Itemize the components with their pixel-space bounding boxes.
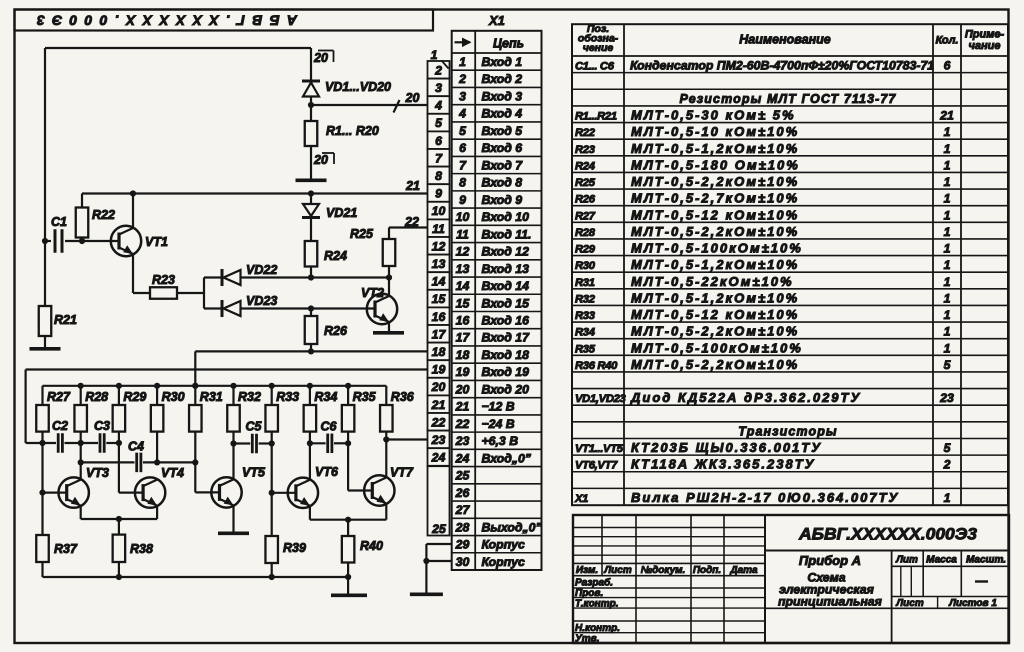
label VT6 <box>315 465 339 479</box>
svg-text:МЛТ-0,5-1,2кОм±10%: МЛТ-0,5-1,2кОм±10% <box>631 141 799 156</box>
connector X1 header arrow <box>455 38 472 48</box>
resistor R26 <box>305 309 318 352</box>
svg-text:1: 1 <box>944 158 951 172</box>
svg-text:С1... С6: С1... С6 <box>575 61 615 73</box>
wire C2-C3 segment <box>65 442 99 444</box>
diode VD1...VD20 <box>302 81 320 97</box>
node R26 bottom on bus18 <box>308 348 314 354</box>
label R33 <box>276 390 299 404</box>
svg-text:Вход 8: Вход 8 <box>482 176 523 190</box>
label C2 <box>52 419 68 433</box>
svg-text:VT1...VT5: VT1...VT5 <box>575 443 624 455</box>
resistor R33 <box>265 386 278 432</box>
resistor R37 <box>36 535 49 577</box>
svg-text:6: 6 <box>435 134 442 148</box>
svg-text:VT1: VT1 <box>145 235 168 249</box>
svg-text:9: 9 <box>459 193 466 207</box>
label R21 <box>54 313 77 327</box>
svg-text:Вход 1: Вход 1 <box>482 55 523 69</box>
svg-text:Кол.: Кол. <box>936 35 959 47</box>
svg-text:12: 12 <box>432 239 446 253</box>
svg-text:МЛТ-0,5-100кОм±10%: МЛТ-0,5-100кОм±10% <box>631 241 803 256</box>
node R38 top <box>116 516 122 522</box>
resistor R40 <box>342 520 355 577</box>
svg-text:C6: C6 <box>321 420 338 434</box>
svg-text:25: 25 <box>431 522 446 536</box>
svg-text:R32: R32 <box>238 390 261 404</box>
svg-text:R1... R20: R1... R20 <box>326 124 379 138</box>
svg-text:Разраб.: Разраб. <box>575 577 613 589</box>
wire R31 lead <box>194 432 196 493</box>
resistor R29 <box>113 386 126 432</box>
label VT7 <box>390 466 414 480</box>
svg-text:3: 3 <box>435 81 442 95</box>
label VT3 <box>86 466 109 480</box>
svg-text:5: 5 <box>459 124 466 138</box>
wire R25 bottom to VT2 <box>388 266 390 296</box>
node resistor bus junctions <box>78 383 352 389</box>
transistor VT4 <box>135 477 165 507</box>
capacitor C1 <box>45 229 82 253</box>
svg-text:10: 10 <box>456 210 470 224</box>
wire R28 lead <box>80 432 82 480</box>
resistor R22 <box>76 194 89 242</box>
capacitor C2 <box>58 433 62 453</box>
svg-text:R31: R31 <box>200 390 223 404</box>
title block headers <box>576 565 758 576</box>
svg-text:Вход 18: Вход 18 <box>482 348 530 362</box>
svg-text:−24 В: −24 В <box>482 417 515 431</box>
svg-text:МЛТ-0,5-1,2кОм±10%: МЛТ-0,5-1,2кОм±10% <box>631 257 799 272</box>
svg-text:7: 7 <box>435 151 443 165</box>
label VD22 <box>246 263 277 277</box>
group slash 20 <box>394 91 420 113</box>
svg-text:29: 29 <box>455 538 470 552</box>
diode VD23 <box>222 300 241 317</box>
svg-text:Утв.: Утв. <box>575 634 599 645</box>
svg-text:R27: R27 <box>575 210 596 222</box>
svg-text:7: 7 <box>459 158 467 172</box>
svg-text:R38: R38 <box>130 542 153 556</box>
svg-text:МЛТ-0,5-12 кОм±10%: МЛТ-0,5-12 кОм±10% <box>631 207 799 222</box>
capacitor C6 <box>328 434 332 454</box>
label C4 <box>128 440 144 454</box>
wire R35 lead <box>347 432 349 491</box>
svg-text:1: 1 <box>944 225 951 239</box>
svg-text:17: 17 <box>432 327 447 341</box>
svg-text:R28: R28 <box>85 390 108 404</box>
svg-text:МЛТ-0,5-2,2кОм±10%: МЛТ-0,5-2,2кОм±10% <box>631 324 799 339</box>
label R1...R20 <box>326 124 379 138</box>
node R40 top <box>345 517 351 523</box>
label R40 <box>360 539 383 553</box>
svg-text:9: 9 <box>435 187 442 201</box>
node C1 left <box>42 238 48 244</box>
svg-text:R40: R40 <box>360 539 383 553</box>
svg-text:13: 13 <box>456 262 470 276</box>
wire VT1 base <box>82 240 119 242</box>
svg-text:X1: X1 <box>488 13 505 28</box>
label C5 <box>246 420 263 434</box>
title block sheet row <box>895 598 997 609</box>
svg-text:АБВГ.ХХХХХХ.000Э3: АБВГ.ХХХХХХ.000Э3 <box>798 525 978 544</box>
label R26 <box>324 324 348 338</box>
wire VT3-VT4 emitters <box>81 506 157 519</box>
svg-text:МЛТ-0,5-10 кОм±10%: МЛТ-0,5-10 кОм±10% <box>631 124 799 139</box>
svg-text:30: 30 <box>456 555 470 569</box>
diode VD22 <box>222 269 241 286</box>
svg-text:Вход 16: Вход 16 <box>482 313 530 327</box>
svg-text:X1: X1 <box>574 493 588 505</box>
wire R33 lead <box>271 432 273 493</box>
wire C5 right segment <box>259 442 272 444</box>
svg-text:Вход 10: Вход 10 <box>482 210 530 224</box>
svg-text:22: 22 <box>431 415 446 429</box>
wire VT2 emitter <box>388 322 390 331</box>
svg-text:20: 20 <box>431 380 446 394</box>
svg-text:25: 25 <box>455 469 470 483</box>
capacitor C4 <box>137 453 141 473</box>
svg-text:КТ203Б ЩЫ0.336.001ТУ: КТ203Б ЩЫ0.336.001ТУ <box>631 440 822 455</box>
svg-text:22: 22 <box>404 215 419 229</box>
svg-text:R25: R25 <box>350 227 374 241</box>
wire R27 lead <box>41 432 43 535</box>
wire top bus <box>45 48 311 241</box>
svg-text:МЛТ-0,5-180 Ом±10%: МЛТ-0,5-180 Ом±10% <box>631 157 800 172</box>
wire VD22 branch <box>204 276 221 278</box>
svg-text:Лист: Лист <box>603 565 632 576</box>
pin 25 tall box <box>428 466 450 536</box>
svg-text:R33: R33 <box>575 310 596 322</box>
svg-text:1: 1 <box>944 275 951 289</box>
node VT3 base junction <box>39 490 45 496</box>
wire R36 lead <box>385 432 387 478</box>
node bottom rail junctions <box>116 574 351 580</box>
svg-text:21: 21 <box>431 398 446 412</box>
label VD21 <box>326 206 357 220</box>
wire pin 29 <box>426 543 451 545</box>
svg-text:C2: C2 <box>52 419 68 433</box>
svg-text:Вход 15: Вход 15 <box>482 296 530 310</box>
wire R24 bottom <box>310 267 312 278</box>
svg-text:Изм.: Изм. <box>576 565 598 576</box>
svg-text:Вход 13: Вход 13 <box>482 262 530 276</box>
title block lit-massa-masht <box>895 555 1006 582</box>
svg-text:2: 2 <box>943 458 951 472</box>
svg-text:5: 5 <box>435 116 442 130</box>
label R32 <box>238 390 261 404</box>
svg-text:8: 8 <box>435 169 442 183</box>
svg-text:Конденсатор ПМ2-60В-4700пФ±20%: Конденсатор ПМ2-60В-4700пФ±20%ГОСТ10783-… <box>630 59 934 73</box>
wire R36 to pin 23 <box>386 438 427 440</box>
resistor R39 <box>265 493 278 577</box>
svg-text:22: 22 <box>455 417 470 431</box>
svg-text:VT2: VT2 <box>361 286 384 300</box>
svg-text:C1: C1 <box>51 215 67 229</box>
label R35 <box>353 390 377 404</box>
connector pin box numbers <box>431 63 447 464</box>
svg-text:Выход„0”: Выход„0” <box>482 520 543 534</box>
resistor R31 <box>189 386 202 432</box>
svg-text:Вход 20: Вход 20 <box>482 382 530 396</box>
svg-text:8: 8 <box>459 176 466 190</box>
svg-text:R26: R26 <box>575 194 596 206</box>
svg-text:R28: R28 <box>575 227 596 239</box>
svg-text:13: 13 <box>432 257 446 271</box>
resistor R35 <box>342 386 355 432</box>
wire VT1 emitter <box>133 254 150 293</box>
svg-text:R30: R30 <box>575 260 596 272</box>
node R36-pin23 junction <box>383 436 389 442</box>
svg-text:R24: R24 <box>324 249 347 263</box>
svg-text:R30: R30 <box>162 390 185 404</box>
svg-text:МЛТ-0,5-1,2кОм±10%: МЛТ-0,5-1,2кОм±10% <box>631 290 799 305</box>
label VT5 <box>242 466 266 480</box>
svg-text:+6,3 В: +6,3 В <box>482 434 519 448</box>
svg-text:Транзисторы: Транзисторы <box>738 424 837 438</box>
svg-text:Вход 3: Вход 3 <box>482 89 523 103</box>
title block signature labels <box>575 577 620 645</box>
ground (VT2) <box>373 331 404 335</box>
label VD23 <box>246 294 277 308</box>
svg-text:R22: R22 <box>92 208 115 222</box>
svg-text:23: 23 <box>455 434 470 448</box>
wire C5 left segment <box>234 442 251 444</box>
connector pin boxes 2-24 <box>428 61 450 466</box>
label R22 <box>92 208 115 222</box>
resistor R30 <box>151 386 164 432</box>
label VT1 <box>145 235 168 249</box>
svg-text:Вход 19: Вход 19 <box>482 365 530 379</box>
label R34 <box>314 390 337 404</box>
wire C6 right segment <box>334 442 348 444</box>
transistor VT7 <box>364 475 394 505</box>
wire R30 lead <box>156 432 158 463</box>
svg-text:Вход 12: Вход 12 <box>482 245 530 259</box>
svg-text:6: 6 <box>459 141 466 155</box>
svg-text:Корпус: Корпус <box>482 538 525 552</box>
svg-text:R23: R23 <box>152 273 175 287</box>
node R24 bottom <box>308 274 314 280</box>
svg-text:1: 1 <box>944 242 951 256</box>
svg-text:Н.контр.: Н.контр. <box>575 623 620 634</box>
transistor VT2 <box>367 294 397 324</box>
svg-text:19: 19 <box>456 365 470 379</box>
svg-text:23: 23 <box>939 391 954 405</box>
svg-text:Масса: Масса <box>926 555 957 566</box>
ground (R21) <box>30 347 61 351</box>
label R25 <box>350 227 374 241</box>
svg-text:Диод КД522А дР3.362.029ТУ: Диод КД522А дР3.362.029ТУ <box>630 390 861 405</box>
svg-text:28: 28 <box>455 520 470 534</box>
svg-text:5: 5 <box>944 441 951 455</box>
svg-text:R25: R25 <box>575 177 596 189</box>
wire to pin 4 (20 inputs) <box>311 104 428 106</box>
svg-text:1: 1 <box>944 308 951 322</box>
svg-text:чение: чение <box>583 42 614 54</box>
wire VD22 to R24 <box>241 276 312 278</box>
svg-text:Резисторы МЛТ ГОСТ 7113-77: Резисторы МЛТ ГОСТ 7113-77 <box>679 92 896 106</box>
resistor R24 <box>305 241 318 267</box>
svg-text:18: 18 <box>456 348 470 362</box>
title block device name <box>778 553 883 609</box>
wire R24node to R25node <box>311 276 389 278</box>
svg-text:КТ118А ЖК3.365.238ТУ: КТ118А ЖК3.365.238ТУ <box>631 457 815 472</box>
svg-text:3: 3 <box>459 89 466 103</box>
svg-text:МЛТ-0,5-2,7кОм±10%: МЛТ-0,5-2,7кОм±10% <box>631 191 799 206</box>
wire VT6-VT7 emitters <box>310 504 386 520</box>
ground (input chain) <box>296 179 327 183</box>
svg-text:Вход 6: Вход 6 <box>482 141 523 155</box>
wire R34 lead <box>309 432 311 480</box>
svg-text:МЛТ-0,5-2,2кОм±10%: МЛТ-0,5-2,2кОм±10% <box>631 224 799 239</box>
svg-text:принципиальная: принципиальная <box>778 595 883 609</box>
node label 20 (group of 20 wires, top) <box>313 51 334 66</box>
resistor R25 <box>383 228 396 267</box>
svg-text:VD23: VD23 <box>246 294 277 308</box>
label C6 <box>321 420 338 434</box>
svg-text:R34: R34 <box>575 327 596 339</box>
svg-text:11: 11 <box>456 227 469 241</box>
svg-text:R26: R26 <box>324 324 348 338</box>
svg-text:R27: R27 <box>47 390 71 404</box>
wire VT3 base <box>43 492 67 494</box>
resistor R38 <box>113 519 126 577</box>
svg-text:16: 16 <box>456 313 470 327</box>
svg-text:Приме-: Приме- <box>965 29 1005 41</box>
wire C4 left segment <box>81 461 135 463</box>
svg-text:6: 6 <box>944 59 951 73</box>
svg-text:Подп.: Подп. <box>693 565 721 576</box>
wire C6 left segment <box>310 442 326 444</box>
wire VD21 to R24 <box>310 219 312 242</box>
svg-text:15: 15 <box>432 292 446 306</box>
svg-text:R1...R21: R1...R21 <box>575 110 617 122</box>
label R23 <box>152 273 175 287</box>
svg-text:27: 27 <box>455 503 471 517</box>
svg-text:11: 11 <box>432 222 445 236</box>
parts list header <box>578 23 1005 54</box>
svg-text:VT7: VT7 <box>390 466 414 480</box>
wire resistor bus <box>43 385 387 387</box>
svg-text:МЛТ-0,5-2,2кОм±10%: МЛТ-0,5-2,2кОм±10% <box>631 174 799 189</box>
svg-text:Вход 9: Вход 9 <box>482 193 523 207</box>
label 22 <box>404 215 419 229</box>
svg-text:VT6: VT6 <box>315 465 339 479</box>
svg-text:VT6,VT7: VT6,VT7 <box>575 460 618 472</box>
svg-text:24: 24 <box>431 451 446 465</box>
svg-text:Листов 1: Листов 1 <box>948 598 997 609</box>
svg-text:14: 14 <box>432 275 446 289</box>
resistor R34 <box>304 386 317 432</box>
svg-text:4: 4 <box>434 99 442 113</box>
label VT4 <box>161 466 184 480</box>
node VT1 collector on bus21 <box>130 190 136 196</box>
svg-text:Лит: Лит <box>895 555 918 566</box>
wire bottom rail <box>43 576 349 578</box>
svg-text:20: 20 <box>455 382 470 396</box>
svg-text:Вход 2: Вход 2 <box>482 72 523 86</box>
svg-text:C5: C5 <box>246 420 263 434</box>
svg-text:1: 1 <box>944 192 951 206</box>
svg-text:1: 1 <box>944 291 951 305</box>
svg-text:Лист: Лист <box>895 598 924 609</box>
svg-text:R22: R22 <box>575 127 596 139</box>
connector X1 header Цепь <box>493 37 524 51</box>
connector X1 circuit table grid <box>452 31 542 570</box>
label R31 <box>200 390 223 404</box>
svg-text:17: 17 <box>456 331 471 345</box>
node pin30 junction <box>423 558 429 564</box>
svg-text:1: 1 <box>944 208 951 222</box>
wire VT5 base <box>195 491 219 493</box>
svg-text:Вход 5: Вход 5 <box>482 124 523 138</box>
node R26 top <box>308 305 314 311</box>
svg-text:20: 20 <box>313 153 328 167</box>
svg-text:21: 21 <box>455 400 470 414</box>
svg-text:1: 1 <box>944 491 951 505</box>
svg-text:МЛТ-0,5-22кОм±10%: МЛТ-0,5-22кОм±10% <box>631 274 794 289</box>
svg-text:R39: R39 <box>283 541 306 555</box>
label R30 <box>162 390 185 404</box>
label R28 <box>85 390 108 404</box>
svg-text:R34: R34 <box>314 390 337 404</box>
resistor R27 <box>36 386 49 432</box>
svg-text:Прибор А: Прибор А <box>799 553 861 568</box>
resistor R23 <box>150 287 177 299</box>
wire R23 to split <box>177 278 204 309</box>
svg-text:МЛТ-0,5-100кОм±10%: МЛТ-0,5-100кОм±10% <box>631 340 803 355</box>
svg-text:4: 4 <box>458 107 466 121</box>
title block doc number <box>798 525 978 544</box>
svg-text:VD22: VD22 <box>246 263 277 277</box>
node R25-VT2 collector <box>386 274 392 280</box>
svg-text:10: 10 <box>432 204 446 218</box>
svg-text:VD1...VD20: VD1...VD20 <box>325 80 391 94</box>
node C1-R22-VT1 <box>79 238 85 244</box>
svg-text:VT3: VT3 <box>86 466 109 480</box>
svg-text:26: 26 <box>455 486 470 500</box>
svg-text:20: 20 <box>313 51 328 65</box>
wire bus to pin 19 <box>26 370 428 444</box>
label R24 <box>324 249 347 263</box>
transistor VT3 <box>58 477 88 507</box>
svg-text:МЛТ-0,5-12 кОм±10%: МЛТ-0,5-12 кОм±10% <box>631 307 799 322</box>
svg-text:C3: C3 <box>94 419 110 433</box>
svg-text:1: 1 <box>944 325 951 339</box>
label VT2 <box>361 286 384 300</box>
wire C4 right segment <box>143 461 195 463</box>
wire C3 right segment <box>106 442 119 444</box>
connector X1 circuit table rows <box>455 55 543 569</box>
svg-text:Вход 11.: Вход 11. <box>482 227 532 241</box>
wire C2 left segment <box>26 442 56 444</box>
svg-text:1: 1 <box>944 125 951 139</box>
svg-text:R29: R29 <box>123 390 146 404</box>
svg-text:21: 21 <box>939 108 954 122</box>
wire to pin 11 <box>389 226 428 228</box>
svg-text:Вход 17: Вход 17 <box>482 331 531 345</box>
svg-text:Вход 7: Вход 7 <box>482 158 524 172</box>
svg-text:12: 12 <box>456 245 470 259</box>
parts list rows <box>574 59 954 505</box>
svg-text:МЛТ-0,5-30 кОм± 5%: МЛТ-0,5-30 кОм± 5% <box>631 107 796 122</box>
label R29 <box>123 390 146 404</box>
resistor R36 <box>380 386 393 432</box>
svg-text:Вход 14: Вход 14 <box>482 279 530 293</box>
resistor R28 <box>74 386 87 432</box>
node VD21 on bus21 <box>308 190 314 196</box>
